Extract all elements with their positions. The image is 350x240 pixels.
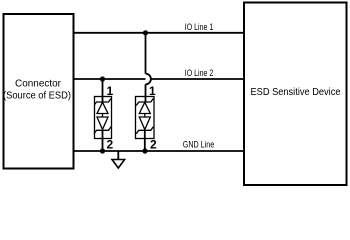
- zener diode Z2a triangle (anode down): [139, 102, 150, 113]
- svg-text:2: 2: [107, 138, 114, 152]
- svg-text:IO Line 1: IO Line 1: [185, 22, 214, 32]
- pin 1 wire from IO Line 2: [102, 79, 104, 102]
- svg-text:ESD Sensitive Device: ESD Sensitive Device: [251, 87, 341, 98]
- svg-text:Connector: Connector: [15, 79, 62, 90]
- zener diode Z1b cathode bar: [94, 127, 111, 134]
- connector box (Source of ESD): [3, 14, 74, 169]
- wire IO Line 2: [74, 78, 245, 80]
- junction dot on IO Line 1: [143, 30, 148, 35]
- junction dot on IO Line 2: [100, 76, 105, 81]
- component body rectangle: [136, 97, 155, 139]
- TVS diode D2 (right ESD protection device): [136, 30, 158, 153]
- svg-text:2: 2: [150, 138, 157, 152]
- pin 1 wire from IO Line 1: [145, 33, 147, 74]
- net label IO Line 2: [185, 68, 214, 78]
- zener diode Z2a cathode bar: [136, 99, 153, 106]
- component body rectangle: [95, 97, 112, 139]
- wire hop over IO Line 2: [146, 74, 151, 85]
- zener diode Z1b triangle (anode up): [97, 117, 108, 130]
- zener diode Z1a cathode bar: [94, 99, 111, 106]
- zener diode Z1a triangle (anode down): [97, 102, 108, 113]
- pin 2 wire to GND line: [144, 130, 146, 151]
- svg-text:(Source of ESD): (Source of ESD): [3, 91, 71, 102]
- ground symbol: [112, 151, 125, 168]
- pin 2 wire to GND line: [102, 130, 104, 151]
- svg-text:IO Line 2: IO Line 2: [185, 68, 214, 78]
- junction dot on GND line: [100, 148, 105, 153]
- junction dot on GND line: [142, 148, 147, 153]
- net label IO Line 1: [185, 22, 214, 32]
- anode link wire: [102, 114, 104, 118]
- zener diode Z2b cathode bar: [136, 127, 153, 134]
- svg-text:GND Line: GND Line: [183, 139, 215, 149]
- TVS diode D1 (left ESD protection device): [94, 76, 114, 153]
- zener diode Z2b triangle (anode up): [139, 117, 150, 130]
- anode link wire: [144, 114, 146, 118]
- ESD sensitive device box: [244, 3, 347, 186]
- net label GND Line: [183, 139, 215, 149]
- wire GND Line: [74, 150, 245, 152]
- wire IO Line 1: [74, 32, 245, 34]
